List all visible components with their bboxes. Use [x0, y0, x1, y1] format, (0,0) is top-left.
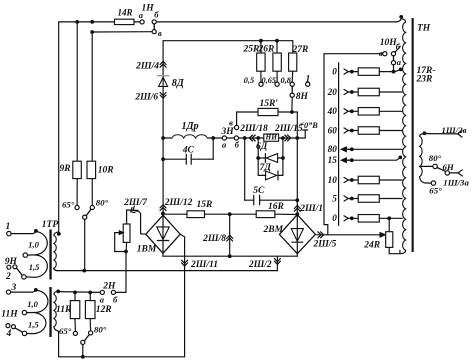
svg-text:80: 80: [328, 144, 338, 154]
svg-text:10: 10: [328, 175, 338, 185]
svg-text:1ВМ: 1ВМ: [137, 245, 157, 255]
svg-text:2Ш/15: 2Ш/15: [274, 124, 303, 134]
svg-text:а: а: [100, 294, 105, 304]
svg-text:10Н: 10Н: [380, 38, 398, 48]
svg-text:1: 1: [6, 222, 11, 232]
svg-text:“0”В: “0”В: [300, 121, 318, 130]
svg-text:2Ш/7: 2Ш/7: [123, 198, 148, 208]
svg-text:1: 1: [306, 74, 311, 84]
svg-text:1Ш/3а: 1Ш/3а: [443, 177, 469, 187]
svg-text:0,65: 0,65: [262, 76, 277, 85]
svg-text:1ТР: 1ТР: [42, 220, 59, 230]
svg-text:12R: 12R: [96, 305, 112, 315]
svg-text:26R: 26R: [258, 44, 275, 54]
svg-text:0,8: 0,8: [281, 76, 292, 85]
svg-text:1Н: 1Н: [142, 4, 155, 14]
svg-text:2Ш/1: 2Ш/1: [299, 204, 323, 214]
svg-text:2Ш/4: 2Ш/4: [135, 61, 159, 71]
svg-text:15: 15: [328, 155, 338, 165]
svg-text:80°: 80°: [429, 153, 442, 163]
svg-text:2Ш/6: 2Ш/6: [134, 93, 158, 103]
svg-text:11R: 11R: [56, 305, 71, 315]
svg-text:9Н: 9Н: [5, 257, 18, 267]
svg-text:20: 20: [327, 87, 338, 97]
svg-text:23R: 23R: [416, 74, 433, 84]
svg-text:в: в: [229, 118, 233, 128]
svg-text:60: 60: [328, 125, 338, 135]
svg-text:НИ: НИ: [265, 133, 278, 142]
svg-text:в: в: [158, 28, 162, 38]
svg-text:16R: 16R: [268, 202, 284, 212]
svg-text:в: в: [379, 48, 383, 58]
svg-text:2Ш/2: 2Ш/2: [248, 260, 272, 270]
svg-text:2ВМ: 2ВМ: [263, 225, 284, 235]
svg-text:0,5: 0,5: [244, 76, 254, 85]
svg-text:а: а: [397, 57, 402, 67]
svg-text:8Д: 8Д: [172, 78, 185, 89]
svg-text:7Д: 7Д: [260, 163, 272, 173]
svg-text:5С: 5С: [253, 186, 265, 196]
svg-text:4С: 4С: [182, 145, 195, 155]
svg-text:15R′: 15R′: [260, 99, 279, 109]
svg-text:1,5: 1,5: [29, 262, 40, 272]
svg-text:3Н: 3Н: [221, 127, 235, 137]
svg-text:0: 0: [332, 213, 337, 223]
svg-text:2Ш/5: 2Ш/5: [313, 239, 337, 249]
svg-text:65°: 65°: [59, 326, 72, 336]
svg-text:27R: 27R: [292, 45, 309, 55]
svg-text:1,0: 1,0: [27, 299, 38, 309]
svg-text:б: б: [235, 139, 240, 149]
svg-text:0: 0: [332, 66, 337, 76]
svg-text:а: а: [139, 10, 144, 20]
svg-text:2Ш/8: 2Ш/8: [202, 234, 226, 244]
svg-text:ТН: ТН: [417, 24, 431, 34]
svg-text:6Д: 6Д: [256, 142, 268, 152]
svg-text:1Др: 1Др: [182, 121, 199, 132]
svg-text:б: б: [154, 10, 159, 20]
svg-text:2Ш/11: 2Ш/11: [190, 260, 218, 270]
svg-text:2Ш/18: 2Ш/18: [239, 124, 268, 134]
svg-text:80°: 80°: [94, 324, 107, 334]
svg-text:15R: 15R: [197, 200, 213, 210]
svg-text:80°: 80°: [96, 198, 109, 208]
svg-text:б: б: [396, 42, 401, 52]
svg-text:65°: 65°: [62, 200, 75, 210]
svg-text:2Ш/12: 2Ш/12: [164, 198, 193, 208]
svg-text:5: 5: [332, 193, 337, 203]
svg-text:8Н: 8Н: [296, 92, 309, 102]
svg-text:24R: 24R: [363, 241, 380, 251]
svg-text:25R: 25R: [243, 44, 260, 54]
svg-text:1,0: 1,0: [28, 239, 39, 249]
svg-text:6Н: 6Н: [443, 162, 455, 172]
svg-text:3: 3: [11, 283, 17, 293]
svg-text:1,5: 1,5: [28, 320, 39, 330]
svg-text:40: 40: [327, 106, 338, 116]
svg-text:65°: 65°: [429, 185, 442, 195]
svg-text:14R: 14R: [118, 7, 133, 17]
svg-text:4: 4: [6, 329, 12, 339]
svg-text:2: 2: [5, 272, 11, 282]
svg-text:10R: 10R: [98, 165, 114, 175]
svg-text:2Н: 2Н: [102, 282, 116, 292]
svg-text:1Ш/2в: 1Ш/2в: [442, 125, 467, 135]
svg-text:9R: 9R: [60, 164, 71, 174]
svg-text:11Н: 11Н: [1, 310, 18, 320]
